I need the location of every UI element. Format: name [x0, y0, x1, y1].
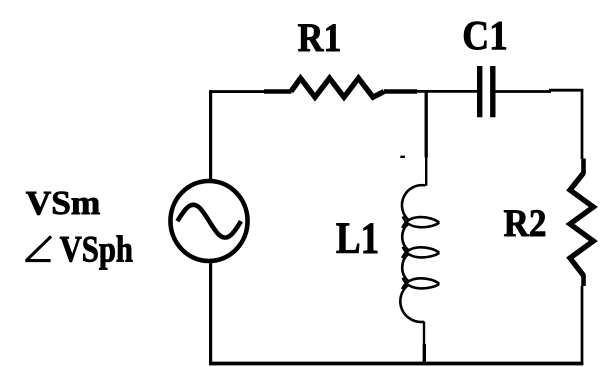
svg-text:L1: L1 [336, 213, 379, 262]
svg-text:VSm: VSm [26, 185, 101, 222]
svg-text:C1: C1 [462, 12, 508, 58]
svg-text:VSph: VSph [60, 229, 133, 270]
svg-text:R2: R2 [503, 202, 546, 245]
svg-text:R1: R1 [298, 15, 342, 60]
